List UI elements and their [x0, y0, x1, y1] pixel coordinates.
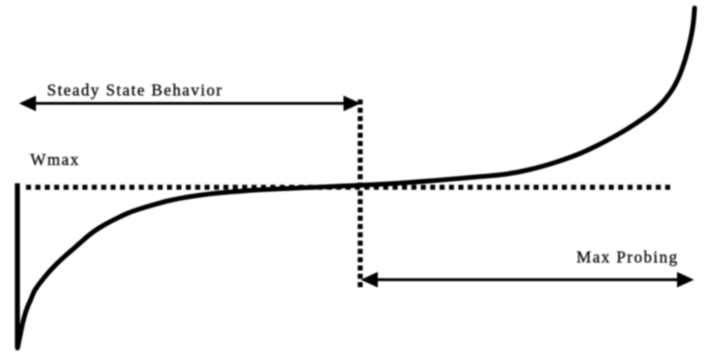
svg-text:Steady State Behavior: Steady State Behavior	[47, 80, 223, 99]
svg-text:Max Probing: Max Probing	[577, 248, 679, 267]
svg-text:Wmax: Wmax	[30, 150, 80, 169]
